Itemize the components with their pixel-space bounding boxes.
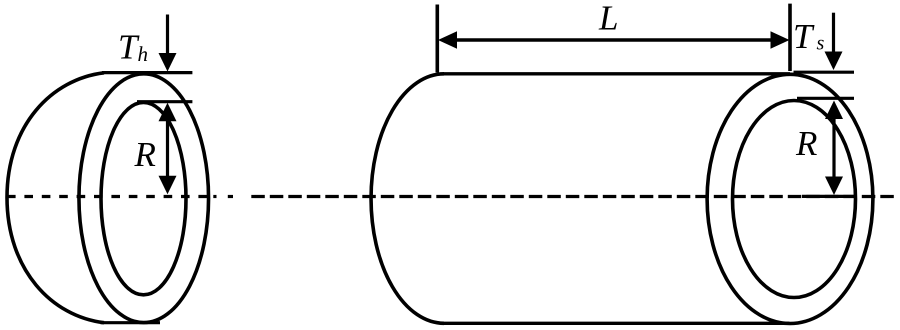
Ts tick line <box>794 71 855 74</box>
shell: left end arc <box>371 74 444 323</box>
shell R tick line <box>797 97 854 100</box>
svg-text:L: L <box>598 0 618 38</box>
centerline (dashed axis), right part <box>251 195 898 198</box>
svg-text:R: R <box>134 135 156 174</box>
L extension line left <box>435 5 439 73</box>
L extension line right <box>788 4 792 71</box>
svg-text:T: T <box>793 17 815 56</box>
shell R dimension arrow (double) <box>832 108 835 186</box>
head R tick line <box>137 100 192 103</box>
head bottom tangent line <box>101 321 161 324</box>
Ts dimension arrow (down) <box>832 13 835 53</box>
Th dimension arrow (down) <box>166 15 169 56</box>
head inner ellipse <box>101 102 186 294</box>
svg-text:s: s <box>817 32 825 54</box>
shell outer ellipse <box>707 74 873 323</box>
head top tangent line + Th tick <box>102 71 192 74</box>
centerline (dashed axis), left part <box>7 195 209 198</box>
svg-text:h: h <box>138 42 149 66</box>
centerline solid segment near right R arrow <box>802 195 856 198</box>
centerline dot 2 <box>228 195 233 198</box>
L dimension line with arrowheads <box>455 38 772 41</box>
shell bottom line <box>443 322 790 325</box>
shell inner ellipse <box>733 101 856 298</box>
centerline dot 1 <box>213 195 216 198</box>
head outer ellipse <box>79 74 209 323</box>
svg-text:R: R <box>795 124 817 163</box>
shell top line <box>443 72 790 75</box>
hemispherical head: back silhouette arc <box>7 73 104 323</box>
head R dimension arrow (double) <box>166 112 169 186</box>
